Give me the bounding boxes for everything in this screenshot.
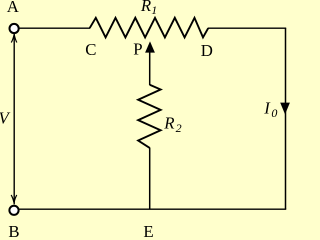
wire middle stub (P arrow to R2) bbox=[149, 52, 151, 85]
wire bottom bbox=[19, 208, 287, 210]
wire right vertical bbox=[285, 28, 287, 209]
resistor R1 zigzag bbox=[90, 18, 209, 38]
wire top (R1 to right corner) bbox=[208, 27, 286, 29]
svg-text:2: 2 bbox=[176, 121, 182, 135]
terminal A circle bbox=[10, 24, 19, 33]
wire middle stub (R2 to bottom, node E) bbox=[149, 148, 151, 210]
wire top (A to R1) bbox=[19, 27, 91, 29]
wiper arrow P (solid, up) bbox=[145, 41, 155, 52]
arrowhead down (V, above B) bbox=[11, 195, 17, 203]
svg-text:B: B bbox=[8, 222, 19, 237]
svg-text:D: D bbox=[201, 41, 213, 60]
svg-text:R: R bbox=[140, 0, 151, 15]
svg-text:E: E bbox=[143, 222, 153, 237]
svg-text:1: 1 bbox=[151, 3, 157, 17]
current arrow I0 (solid, down) bbox=[280, 103, 290, 115]
svg-text:R: R bbox=[163, 113, 174, 132]
resistor R2 zigzag bbox=[138, 85, 161, 148]
arrowhead up (V, below A) bbox=[11, 34, 17, 42]
svg-text:0: 0 bbox=[271, 106, 277, 120]
terminal B circle bbox=[9, 206, 18, 215]
svg-text:A: A bbox=[7, 0, 19, 16]
svg-text:P: P bbox=[133, 39, 142, 58]
svg-text:C: C bbox=[85, 40, 96, 59]
wire left vertical (V branch) bbox=[13, 34, 15, 205]
